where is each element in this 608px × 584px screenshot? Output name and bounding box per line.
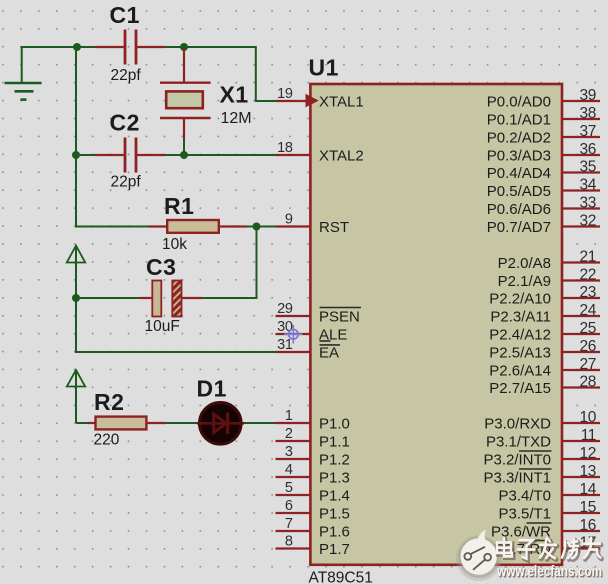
svg-text:P0.5/AD5: P0.5/AD5: [487, 183, 551, 200]
pin 2 stub: [276, 426, 312, 442]
svg-text:P3.1/TXD: P3.1/TXD: [486, 433, 551, 450]
svg-text:P3.3/INT1: P3.3/INT1: [483, 469, 551, 486]
svg-text:39: 39: [580, 87, 596, 104]
pin 1 stub: [276, 408, 312, 424]
svg-text:U1: U1: [309, 54, 339, 80]
ground: [5, 46, 42, 100]
svg-text:10k: 10k: [162, 236, 187, 253]
svg-text:P0.0/AD0: P0.0/AD0: [487, 93, 551, 110]
svg-text:P1.2: P1.2: [319, 451, 350, 468]
svg-text:7: 7: [285, 516, 293, 532]
svg-text:11: 11: [581, 427, 596, 444]
svg-text:28: 28: [580, 373, 596, 390]
svg-text:P2.2/A10: P2.2/A10: [489, 290, 551, 307]
pin 38 stub: [561, 105, 600, 122]
svg-text:P0.2/AD2: P0.2/AD2: [487, 129, 551, 146]
pin 26 stub: [561, 338, 600, 355]
pin 29 stub: [276, 301, 312, 317]
svg-text:RST: RST: [319, 219, 349, 236]
svg-text:P2.5/A13: P2.5/A13: [489, 344, 551, 361]
LED D1: [197, 403, 244, 445]
watermark chinese text you: [585, 543, 601, 547]
svg-text:P3.4/T0: P3.4/T0: [498, 487, 551, 504]
pin 13 stub: [561, 463, 600, 480]
pin 25 stub: [561, 320, 600, 337]
watermark chinese text dian: [503, 539, 507, 544]
pin 24 stub: [561, 302, 600, 319]
svg-text:10uF: 10uF: [145, 318, 180, 335]
pin 4 stub: [276, 462, 312, 478]
pin 30 stub: [276, 319, 312, 335]
chip U1 AT89C51 microcontroller body: [310, 84, 562, 565]
wire ground to node A: [21, 46, 77, 48]
pin 33 stub: [561, 194, 600, 211]
wire arrow 2 to R2: [76, 422, 88, 424]
svg-text:EA: EA: [319, 344, 339, 361]
svg-text:P0.7/AD7: P0.7/AD7: [487, 219, 551, 236]
svg-text:22pf: 22pf: [111, 67, 142, 84]
svg-text:P1.0: P1.0: [319, 415, 350, 432]
svg-text:31: 31: [277, 337, 293, 353]
pin 8 stub: [276, 534, 312, 550]
pin 36 stub: [561, 141, 600, 158]
pin label P3.3/INT1 with overline: [483, 469, 551, 486]
pin 21 stub: [561, 248, 600, 265]
svg-text:22: 22: [580, 266, 596, 283]
pin 9 stub: [276, 212, 312, 228]
svg-text:12M: 12M: [221, 110, 252, 127]
svg-text:3: 3: [285, 444, 293, 460]
pin 11 stub: [561, 427, 600, 444]
pin 19 stub: [276, 86, 312, 102]
svg-text:R1: R1: [164, 193, 194, 219]
node D junction dot on RST wire: [253, 223, 261, 231]
pin 5 stub: [276, 480, 312, 496]
pin 35 stub: [561, 158, 600, 175]
pin 14 stub: [561, 481, 600, 498]
svg-text:R2: R2: [94, 389, 124, 415]
svg-text:P3.0/RXD: P3.0/RXD: [484, 415, 551, 432]
svg-text:P0.4/AD4: P0.4/AD4: [487, 165, 551, 182]
svg-text:P0.3/AD3: P0.3/AD3: [487, 147, 551, 164]
pin label P3.6/WR with overline: [491, 523, 552, 540]
svg-text:P1.5: P1.5: [319, 505, 350, 522]
power terminal arrow 2: [67, 370, 85, 423]
svg-text:AT89C51: AT89C51: [309, 570, 373, 584]
svg-text:220: 220: [94, 431, 120, 448]
svg-text:36: 36: [580, 141, 596, 158]
svg-text:21: 21: [580, 248, 596, 265]
capacitor C2: [95, 138, 165, 173]
wire R2 to D1: [166, 422, 198, 424]
svg-text:29: 29: [277, 301, 293, 317]
svg-text:14: 14: [580, 481, 597, 498]
pin label P3.1/TXD: [486, 433, 551, 450]
blue origin marker at pin 30: [284, 325, 303, 344]
svg-text:D1: D1: [197, 375, 227, 401]
svg-text:8: 8: [285, 534, 293, 550]
node C junction dot: [180, 151, 188, 159]
svg-text:5: 5: [285, 480, 293, 496]
pin label P3.2/INT0 with overline: [483, 451, 551, 468]
svg-text:13: 13: [580, 463, 596, 480]
pin 32 stub: [561, 212, 600, 229]
pin label ALE: [319, 326, 347, 343]
svg-text:32: 32: [580, 212, 596, 229]
svg-text:P1.6: P1.6: [319, 523, 350, 540]
wire X1 to node C: [183, 138, 185, 155]
svg-text:P1.7: P1.7: [319, 541, 350, 558]
svg-text:P2.0/A8: P2.0/A8: [498, 255, 551, 272]
svg-text:P3.6/WR: P3.6/WR: [491, 523, 551, 540]
watermark chinese text shao: [564, 543, 568, 550]
svg-text:12: 12: [580, 445, 596, 462]
wire main vertical rail: [75, 47, 77, 228]
wire node A to C1: [77, 46, 95, 48]
crystal X1: [160, 48, 211, 138]
capacitor C3 electrolytic: [140, 281, 202, 317]
pin label P3.7/RD with overline: [494, 541, 551, 558]
svg-text:38: 38: [580, 105, 596, 122]
svg-text:P3.2/INT0: P3.2/INT0: [483, 451, 551, 468]
svg-text:P2.4/A12: P2.4/A12: [489, 326, 551, 343]
wire node E down to EA pin 31: [76, 298, 277, 352]
svg-text:26: 26: [580, 338, 596, 355]
pin 12 stub: [561, 445, 600, 462]
wire node E to C3: [76, 297, 140, 299]
svg-text:15: 15: [580, 499, 596, 516]
pin 22 stub: [561, 266, 600, 283]
resistor R2: [88, 417, 166, 430]
pin label EA with overline: [319, 344, 340, 361]
svg-text:25: 25: [580, 320, 596, 337]
svg-text:37: 37: [580, 123, 596, 140]
svg-text:4: 4: [285, 462, 293, 478]
svg-text:9: 9: [285, 212, 293, 228]
power terminal arrow 1: [67, 246, 85, 299]
junction dot on rail at C2 row: [72, 151, 80, 159]
resistor R1: [149, 220, 248, 233]
svg-text:23: 23: [580, 284, 596, 301]
pin label P3.0/RXD: [484, 415, 551, 432]
pin 39 stub: [561, 87, 600, 104]
svg-text:www.elecfans.com: www.elecfans.com: [496, 564, 602, 580]
pin 27 stub: [561, 356, 600, 373]
svg-text:22pf: 22pf: [111, 173, 142, 190]
svg-text:X1: X1: [220, 82, 249, 108]
svg-text:C3: C3: [146, 254, 176, 280]
svg-text:P1.3: P1.3: [319, 469, 350, 486]
wire node C to XTAL2 pin 18: [184, 154, 277, 156]
node A junction dot: [73, 43, 81, 51]
svg-text:18: 18: [277, 140, 293, 156]
svg-text:C1: C1: [110, 2, 140, 28]
node E junction dot at C3 left: [72, 294, 80, 302]
svg-text:P2.1/A9: P2.1/A9: [498, 273, 551, 290]
svg-text:24: 24: [580, 302, 597, 319]
svg-text:P2.3/A11: P2.3/A11: [490, 308, 551, 325]
pin 7 stub: [276, 516, 312, 532]
XTAL1 input arrow: [306, 94, 319, 108]
wire rail to C2: [76, 154, 95, 156]
pin 17 stub: [561, 534, 600, 551]
svg-text:1: 1: [285, 408, 293, 424]
svg-text:P1.1: P1.1: [319, 433, 350, 450]
pin label PSEN with overline: [319, 308, 361, 326]
pin 23 stub: [561, 284, 600, 301]
watermark chinese text fa: [548, 539, 551, 542]
svg-text:P0.6/AD6: P0.6/AD6: [487, 201, 551, 218]
capacitor C1: [95, 30, 165, 65]
elecfans watermark logo: [456, 530, 502, 581]
svg-text:P3.5/T1: P3.5/T1: [498, 505, 551, 522]
watermark chinese text zi: [521, 542, 534, 548]
svg-text:XTAL2: XTAL2: [319, 147, 364, 164]
wire node B to pin 19 corner: [184, 47, 277, 101]
svg-text:6: 6: [285, 498, 293, 514]
wire C1 to node B: [165, 46, 184, 48]
wire C2 to node C: [165, 154, 184, 156]
svg-text:PSEN: PSEN: [319, 308, 360, 325]
wire rail to R1: [76, 226, 149, 228]
pin 16 stub: [561, 517, 600, 534]
pin 28 stub: [561, 373, 600, 390]
svg-text:27: 27: [580, 356, 596, 373]
pin 3 stub: [276, 444, 312, 460]
pin 34 stub: [561, 176, 600, 193]
svg-text:XTAL1: XTAL1: [319, 93, 364, 110]
pin 15 stub: [561, 499, 600, 516]
pin 10 stub: [561, 409, 600, 426]
svg-text:C2: C2: [110, 109, 140, 135]
svg-text:P1.4: P1.4: [319, 487, 350, 504]
pin 37 stub: [561, 123, 600, 140]
pin label P3.4/T0: [498, 487, 551, 504]
svg-text:2: 2: [285, 426, 293, 442]
node B junction dot: [180, 43, 188, 51]
pin 18 stub: [276, 140, 312, 156]
svg-text:P2.7/A15: P2.7/A15: [489, 380, 551, 397]
pin 31 stub: [276, 337, 312, 353]
wire node D down to C3: [202, 227, 257, 299]
wire D1 to P1.0 pin 1: [244, 422, 277, 424]
pin 6 stub: [276, 498, 312, 514]
svg-text:35: 35: [580, 158, 596, 175]
svg-text:19: 19: [277, 86, 293, 102]
svg-text:16: 16: [580, 517, 596, 534]
svg-text:30: 30: [277, 319, 293, 335]
svg-text:P0.1/AD1: P0.1/AD1: [487, 111, 551, 128]
pin label P3.5/T1: [498, 505, 551, 522]
svg-text:10: 10: [580, 409, 597, 426]
svg-text:P2.6/A14: P2.6/A14: [489, 362, 551, 379]
wire R1 to RST pin 9: [247, 226, 277, 228]
svg-text:33: 33: [580, 194, 596, 211]
svg-text:34: 34: [580, 176, 597, 193]
